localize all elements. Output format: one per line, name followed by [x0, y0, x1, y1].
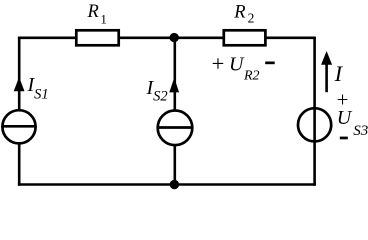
wire bottom rail — [18, 183, 316, 186]
wire right branch — [313, 37, 316, 186]
current source IS2 — [158, 111, 193, 146]
wire left branch — [18, 37, 21, 186]
wire middle branch — [174, 37, 177, 186]
arrow of current I — [321, 51, 332, 92]
svg-text:I: I — [334, 61, 344, 86]
arrow of IS2 — [169, 78, 179, 93]
label minus of US3 — [340, 137, 348, 140]
arrow of IS1 — [14, 77, 25, 91]
resistor R1 — [76, 30, 118, 45]
wire top rail — [18, 36, 316, 39]
current source IS1 — [2, 110, 35, 143]
node B bottom junction — [170, 180, 179, 189]
voltage source US3 — [298, 108, 331, 141]
node A top junction — [170, 33, 179, 42]
label minus of UR2 — [265, 62, 275, 65]
svg-text:+: + — [212, 51, 225, 76]
resistor R2 — [224, 30, 266, 45]
